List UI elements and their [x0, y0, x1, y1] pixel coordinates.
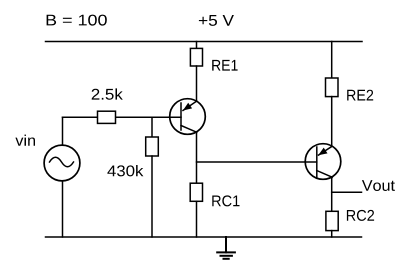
- label RC1: [212, 195, 239, 206]
- label RE1: [212, 60, 237, 71]
- wire rail to RE1: [196, 42, 198, 49]
- wire corner down to source: [62, 117, 64, 145]
- wire 430k to ground rail: [151, 156, 153, 237]
- resistor 430k: [146, 137, 159, 156]
- transistor Q2: [305, 144, 341, 180]
- wire Q2 collector down: [331, 177, 333, 211]
- wire Vout tap: [332, 191, 362, 193]
- label RE2: [347, 90, 373, 101]
- wire ground bottom rail: [46, 236, 362, 238]
- wire RE1 to Q1 emitter: [196, 66, 198, 101]
- wire RC2 to ground rail: [331, 231, 333, 237]
- label B = 100: [47, 15, 107, 26]
- wire base node to 430k: [151, 117, 153, 137]
- resistor 2.5k: [98, 111, 116, 123]
- wire Q1 collector down: [196, 132, 198, 183]
- label +5 V: [199, 15, 234, 26]
- source vin (AC): [44, 145, 80, 181]
- wire Q1 collector to Q2 base: [197, 161, 317, 163]
- label 2.5k: [92, 88, 123, 99]
- wire vin node to Q1 base: [63, 116, 182, 118]
- wire RC1 to ground rail: [196, 201, 198, 237]
- resistor RE1: [190, 48, 202, 66]
- wire source to ground rail: [62, 181, 64, 237]
- transistor Q1: [170, 99, 206, 135]
- resistor RC1: [190, 183, 202, 201]
- ground: [217, 237, 235, 259]
- wire +5V top rail: [46, 41, 363, 43]
- wire RE2 to Q2 emitter: [331, 97, 333, 147]
- wire rail to RE2: [331, 42, 333, 79]
- resistor RC2: [326, 211, 338, 230]
- label 430k: [107, 165, 143, 176]
- label RC2: [347, 210, 374, 221]
- resistor RE2: [326, 78, 339, 97]
- label Vout: [362, 180, 395, 191]
- label vin: [15, 135, 35, 146]
